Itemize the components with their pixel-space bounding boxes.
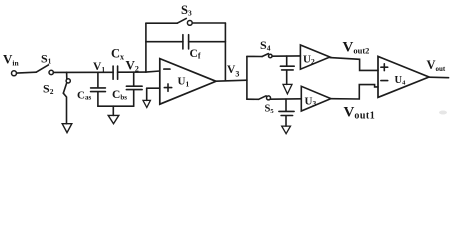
label Cx	[111, 47, 124, 62]
svg-text:Vin: Vin	[3, 52, 19, 68]
ground under bottom hold cap	[282, 126, 291, 134]
wire feedback right vertical	[224, 23, 226, 80]
capacitor Cf	[183, 35, 189, 49]
U4 plus sign	[381, 64, 388, 71]
svg-text:Cbs: Cbs	[112, 89, 127, 102]
wire S5 to U3	[271, 98, 302, 100]
wire to hold capacitor top	[286, 56, 288, 66]
svg-text:S3: S3	[181, 3, 192, 18]
wire Cf branch right	[189, 41, 226, 43]
wire Cas to rail	[97, 92, 99, 106]
label Vout	[427, 58, 446, 73]
label U1	[178, 76, 190, 89]
wire bottom rail	[98, 105, 134, 107]
wire U1 output (node V3)	[216, 80, 247, 81]
wire S2 to ground	[63, 93, 66, 124]
label U2	[303, 54, 315, 67]
wire S4 to U2	[272, 55, 300, 57]
label Vout2	[343, 40, 370, 56]
switch S2	[63, 79, 70, 93]
svg-text:Vout1: Vout1	[344, 105, 376, 122]
svg-text:Cas: Cas	[77, 90, 91, 102]
switch S3	[177, 18, 192, 25]
wire top branch right	[192, 22, 225, 24]
wire V3 to S5	[247, 98, 259, 100]
capacitor Cas	[91, 88, 106, 92]
wire V3 junction vertical	[246, 56, 248, 99]
label S5	[265, 104, 275, 116]
wire U4 output Vout	[429, 76, 449, 79]
svg-text:V2: V2	[126, 58, 139, 74]
svg-text:U2: U2	[303, 54, 315, 67]
wire node to S2	[66, 72, 68, 79]
capacitor hold top	[280, 66, 294, 70]
wire Vin to S1	[17, 71, 37, 74]
wire cap to ground top	[286, 70, 288, 84]
capacitor Cbs	[126, 86, 142, 89]
U1 plus sign	[164, 84, 171, 91]
wire Cf branch left	[146, 41, 183, 43]
buffer U2	[300, 45, 330, 69]
ground under top hold cap	[283, 84, 292, 94]
svg-text:S1: S1	[41, 52, 52, 66]
wire node V1 down	[97, 72, 99, 87]
svg-text:S5: S5	[265, 104, 275, 116]
label Cf	[190, 48, 201, 61]
svg-text:U3: U3	[305, 96, 317, 109]
svg-text:U1: U1	[178, 76, 190, 89]
U4 minus sign	[381, 80, 388, 82]
wire node to U1 inverting input	[146, 71, 160, 72]
wire U3 output to U4	[331, 85, 378, 99]
wire node V2 down	[133, 72, 135, 86]
svg-text:Vout: Vout	[427, 58, 446, 73]
label U4	[395, 75, 407, 87]
svg-text:V3: V3	[227, 64, 239, 79]
label S2	[43, 82, 54, 97]
switch S4	[262, 54, 272, 58]
buffer U3	[301, 86, 331, 111]
op-amp U1	[160, 59, 216, 105]
wire cap to ground bottom	[285, 116, 287, 126]
label S1	[41, 52, 52, 66]
wire Cx to feedback node	[118, 71, 146, 73]
ground under S2	[62, 124, 72, 133]
label V1	[93, 61, 105, 74]
svg-text:S4: S4	[260, 38, 271, 53]
ground under U1	[143, 100, 150, 107]
label V2	[126, 58, 139, 74]
wire feedback left vertical	[145, 23, 147, 72]
switch S1	[36, 65, 53, 75]
label Vout1	[344, 105, 376, 122]
svg-text:V1: V1	[93, 61, 105, 74]
label Cas	[77, 90, 91, 102]
switch S5	[259, 96, 271, 100]
label S4	[260, 38, 271, 53]
svg-text:U4: U4	[395, 75, 407, 87]
scan smudge	[439, 111, 447, 115]
wire V3 to S4	[247, 55, 262, 57]
input terminal Vin	[12, 71, 17, 76]
capacitor hold bottom	[279, 111, 294, 115]
svg-text:Vout2: Vout2	[343, 40, 370, 56]
U1 minus sign	[164, 68, 170, 70]
wire top branch left	[146, 22, 177, 24]
label Vin	[3, 52, 19, 68]
ground under rail	[108, 115, 119, 123]
svg-text:S2: S2	[43, 82, 54, 97]
capacitor Cx	[113, 66, 118, 79]
label U3	[305, 96, 317, 109]
wire U1 noninverting input	[147, 87, 160, 89]
wire U2 output to U4	[330, 58, 378, 71]
svg-text:Cf: Cf	[190, 48, 201, 61]
wire to ground under U1	[146, 88, 148, 100]
wire S1 to Cx (node V1)	[53, 71, 113, 73]
label V3	[227, 64, 239, 79]
op-amp U4	[378, 56, 429, 97]
label Cbs	[112, 89, 127, 102]
wire Cbs to rail	[133, 90, 135, 106]
wire rail to ground	[112, 106, 114, 115]
wire to hold capacitor bottom	[285, 99, 287, 111]
label S3	[181, 3, 192, 18]
svg-text:Cx: Cx	[111, 47, 124, 62]
